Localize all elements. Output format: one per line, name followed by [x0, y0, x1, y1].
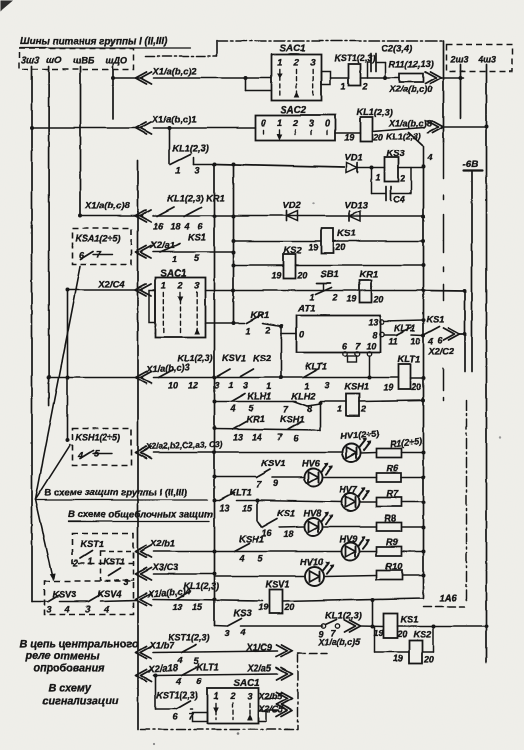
pin 10: [410, 336, 420, 346]
resistor R9: [376, 547, 401, 556]
svg-text:KLT1: KLT1: [397, 353, 420, 364]
svg-text:KST1: KST1: [80, 539, 104, 549]
wire row77 branch down: [245, 78, 271, 91]
svg-text:4: 4: [229, 403, 235, 413]
connector column boundary X1: [137, 160, 139, 729]
svg-text:3: 3: [194, 165, 199, 175]
note line2: [24, 650, 100, 662]
connector X2/a(b,c)0 arrows: [425, 72, 441, 84]
label 1А6: [439, 592, 457, 603]
wire to HV8: [279, 526, 303, 529]
pin 1: [245, 326, 250, 336]
label X2/a5: [246, 663, 272, 673]
svg-text:4: 4: [77, 450, 83, 460]
diode VD2: [286, 211, 297, 221]
label KLT1 row675: [196, 662, 218, 672]
wire row601 from bus: [32, 600, 47, 602]
note line3: [33, 662, 105, 674]
capacitor C4 right wire: [391, 167, 412, 193]
wire R1 to rail: [401, 451, 423, 453]
svg-text:16: 16: [153, 221, 164, 231]
wire row77 right: [441, 77, 463, 79]
svg-text:4: 4: [427, 336, 433, 346]
svg-text:R11(12,13): R11(12,13): [388, 59, 433, 69]
label KL1(2,3) row626: [325, 610, 361, 620]
svg-text:X1/a(b,c)2: X1/a(b,c)2: [151, 65, 197, 76]
pins 6 7 10 of AT1: [342, 341, 376, 351]
pins 16 18 4 6: [153, 221, 203, 231]
wire row252: [153, 251, 233, 253]
wire SAC1b out lower: [205, 321, 235, 325]
label KST1(2,3) bottom: [156, 690, 198, 700]
label X3/C3: [151, 561, 179, 572]
label X1/a(b,c)8 right: [388, 118, 432, 128]
svg-text:3: 3: [46, 604, 51, 614]
wire to KST1 contact: [155, 708, 176, 710]
wire row128 to SAC2: [153, 126, 255, 130]
dash-dot boundary top segment: [217, 40, 444, 42]
connector X2/C2 arrows: [443, 328, 459, 340]
bus label 2ш3: [449, 54, 468, 64]
wire row452: [153, 451, 342, 453]
connector X1/a(b,c)1 chevron: [135, 122, 151, 134]
svg-text:X2/a1: X2/a1: [149, 239, 175, 250]
svg-text:X2/a18: X2/a18: [147, 661, 179, 674]
pin 19 of KS2b: [393, 653, 403, 663]
label R8: [384, 513, 397, 523]
pointer diagonal from KSA1: [35, 266, 80, 499]
svg-text:В цепь центрального: В цепь центрального: [19, 638, 139, 650]
connector X1/b7 chevron: [135, 646, 151, 658]
label -6В: [462, 159, 478, 170]
relay KS2 coil bottom: [409, 640, 422, 663]
wire arrows to KS1: [360, 625, 383, 628]
pins 16 18: [261, 528, 293, 539]
contact KS1 row252: [160, 243, 180, 252]
svg-text:19: 19: [258, 602, 268, 612]
svg-text:1: 1: [213, 691, 218, 701]
wire row675: [153, 673, 277, 677]
pin 2 of KS3: [399, 173, 405, 183]
pin 20 of KLT1: [410, 382, 421, 392]
label X2/b1: [149, 537, 175, 548]
svg-text:1: 1: [161, 280, 166, 290]
connector X1/a(b,c)5 arrows: [344, 620, 360, 632]
contact KSV1 row377: [217, 369, 230, 377]
led HV8: [304, 512, 333, 536]
note: in common block protections: [68, 509, 213, 521]
svg-text:2: 2: [176, 280, 182, 290]
wire row404: [307, 401, 322, 406]
svg-text:1: 1: [304, 381, 309, 391]
pin 19 of KLT1: [383, 382, 393, 392]
pins 6 7: [172, 711, 194, 721]
capacitor C4 plates: [386, 186, 391, 200]
bus 2ш3 4ш3 dashed box: [446, 44, 512, 71]
label KS2: [253, 353, 272, 363]
dash-dot boundary right: [442, 142, 444, 400]
contact KS3 row626: [227, 618, 241, 626]
contact KL1 row599: [176, 591, 190, 599]
pins 1 5: [172, 253, 200, 264]
relay KSH1 coil: [346, 393, 359, 416]
svg-text:KSV3: KSV3: [52, 589, 76, 599]
connector X1/a(b,c)8 chevron: [135, 210, 151, 222]
svg-text:C2(3,4): C2(3,4): [381, 42, 412, 53]
svg-text:6: 6: [196, 676, 202, 686]
rail A vertical: [212, 162, 216, 625]
svg-text:3: 3: [243, 380, 248, 390]
svg-text:18: 18: [170, 221, 180, 231]
svg-text:19: 19: [308, 242, 318, 252]
svg-text:KSA1(2÷5): KSA1(2÷5): [75, 233, 120, 243]
switch SAC1b box: [155, 277, 205, 337]
boundary right solid segment: [442, 41, 444, 143]
wire AT1 input: [281, 326, 296, 333]
pin 20 of KS2: [296, 270, 307, 280]
svg-text:HV10: HV10: [300, 557, 324, 567]
label X2/a1: [149, 239, 175, 250]
svg-text:12: 12: [188, 380, 198, 390]
branch 257 down: [256, 500, 258, 521]
svg-text:1: 1: [266, 381, 271, 391]
connector X1/a(b,c)8 arrows right: [427, 121, 443, 133]
label KSH1 contact row551: [239, 534, 264, 544]
wire KST1 to R11: [360, 76, 399, 80]
svg-text:KL1(2,3): KL1(2,3): [325, 610, 361, 620]
wire row626: [240, 625, 322, 627]
svg-text:2: 2: [360, 404, 366, 414]
connector X1/a(b,c)3 chevron: [135, 371, 151, 383]
KS2 parallel wires: [374, 626, 433, 652]
svg-text:SAC1: SAC1: [279, 43, 305, 54]
svg-text:KST1(2,3): KST1(2,3): [168, 632, 210, 642]
label R1(2÷5): [389, 436, 422, 449]
svg-text:2: 2: [361, 81, 367, 91]
label X2/C4: [97, 278, 125, 289]
svg-text:KSH1: KSH1: [344, 381, 369, 391]
contact KSV1 row476: [256, 469, 270, 477]
contact KL1 row626: [321, 619, 339, 628]
svg-text:3: 3: [324, 380, 329, 390]
wire row290 to -6V rail: [423, 289, 467, 293]
label X1/b7: [148, 639, 175, 650]
svg-text:1: 1: [175, 165, 180, 175]
switch SAC2 label: [280, 105, 307, 116]
svg-text:VD1: VD1: [344, 151, 362, 162]
svg-text:KS2: KS2: [253, 353, 272, 363]
pin 20 of KL1: [372, 132, 383, 142]
connector X3/C3 chevron: [135, 568, 151, 580]
pin 8 of AT1: [372, 330, 384, 340]
label R9: [386, 537, 399, 547]
svg-text:2: 2: [292, 57, 298, 67]
led HV9: [341, 536, 370, 560]
connector X2/b1 chevron: [135, 545, 151, 557]
wire KS3 to rail: [398, 166, 423, 168]
resistor R6: [376, 473, 401, 482]
pins 3 4: [224, 627, 245, 638]
label KS1: [337, 227, 355, 238]
svg-text:3: 3: [214, 380, 219, 390]
contact KS2 row377: [240, 369, 253, 377]
svg-text:KS3: KS3: [233, 607, 252, 618]
pins 7 9: [256, 478, 278, 489]
note: to signalling circuit line1: [48, 682, 91, 694]
relay KR1 coil: [359, 280, 371, 302]
wire row377 from bus: [49, 376, 142, 378]
svg-text:20: 20: [372, 294, 383, 304]
SAC1c input tab: [192, 712, 207, 721]
label KSH1(2÷5): [75, 432, 120, 442]
relay KL1(2,3) label: [356, 107, 392, 117]
svg-text:Шины питания группы I (II,III): Шины питания группы I (II,III): [20, 36, 167, 47]
contact KLH2: [293, 401, 307, 406]
wire R9 to rail: [401, 550, 423, 552]
vertical AT1-in to row377: [279, 333, 283, 379]
wire row652: [153, 651, 277, 653]
bus 3ш3 vertical wire: [30, 66, 34, 601]
svg-text:реле отмены: реле отмены: [24, 650, 100, 662]
connector X2/a18 chevron: [135, 669, 151, 681]
led HV7: [341, 487, 370, 511]
svg-text:KR1: KR1: [359, 268, 378, 279]
relay group KSA1 dashed box: [72, 228, 131, 264]
label KL1(2,3): [177, 353, 213, 363]
pin 20 of KS1b: [396, 629, 407, 639]
wire row216 mid: [153, 215, 423, 217]
wire row323: [233, 323, 283, 328]
label KL1(2,3) row599: [183, 581, 219, 591]
svg-text:8: 8: [372, 330, 377, 340]
pins 4 6: [175, 676, 202, 686]
switch SAC1 label: [279, 43, 305, 54]
wire AT1 pin10 down: [367, 356, 371, 380]
pin 2 of SB1: [331, 292, 337, 302]
pin 1 of KST1: [340, 81, 345, 91]
svg-text:4: 4: [175, 676, 181, 686]
wire row290: [233, 289, 423, 291]
label KL1(2,3) contact upper: [172, 143, 208, 153]
capacitor C2 branch right: [376, 62, 386, 78]
svg-text:шДО: шДО: [105, 55, 127, 65]
svg-text:18: 18: [283, 529, 293, 539]
led HV6: [304, 462, 333, 486]
wire AT1 pin8: [384, 334, 396, 336]
connector X2/C5 arrows: [276, 704, 292, 716]
wire to rail: [411, 334, 423, 337]
pin 1 of KSH1: [337, 404, 342, 414]
svg-text:X3/C3: X3/C3: [151, 561, 179, 572]
contact KL1 row215: [157, 207, 174, 216]
bus шВБ vertical wire: [79, 66, 81, 216]
svg-text:KSH1: KSH1: [239, 534, 264, 544]
contact KR1 row323: [246, 314, 262, 323]
wire R6 to rail: [401, 476, 423, 478]
note: to central release relay circuit: [19, 638, 139, 650]
svg-text:19: 19: [383, 382, 393, 392]
wire KSH1 to rail: [359, 400, 423, 401]
svg-text:10: 10: [168, 380, 178, 390]
svg-text:KL1(2,3) KR1: KL1(2,3) KR1: [167, 193, 224, 203]
bus 4ш3 vertical wire: [484, 64, 488, 662]
wire SAC1 to KST1: [330, 77, 348, 79]
label X1/a(b,c)4: [146, 586, 190, 599]
svg-text:опробования: опробования: [33, 662, 105, 674]
svg-text:1: 1: [172, 254, 177, 264]
contact KLT1 row675: [181, 667, 196, 675]
svg-text:20: 20: [296, 270, 307, 280]
svg-text:В схеме общеблочных защит: В схеме общеблочных защит: [68, 509, 213, 520]
wire row289: [67, 289, 142, 291]
label KS1 bottom: [400, 613, 418, 624]
svg-text:1: 1: [340, 81, 345, 91]
label VD2: [282, 199, 301, 210]
bus шДО vertical wire: [111, 66, 115, 119]
svg-text:3: 3: [310, 57, 315, 67]
pins 4 5: [176, 655, 199, 666]
svg-text:20: 20: [372, 132, 383, 142]
capacitor C2 plates: [371, 53, 376, 71]
contact KS1 row335: [424, 326, 439, 334]
pin 2 of KSH1: [360, 404, 366, 414]
relay group KSV3 KSV4 dashed box: [44, 581, 133, 614]
svg-text:15: 15: [242, 503, 253, 513]
title: power supply buses group I(II,III): [20, 36, 190, 48]
led HV1: [342, 438, 371, 462]
pins 9 7: [318, 628, 336, 639]
label X2/b5: [257, 691, 283, 701]
svg-text:13: 13: [233, 432, 243, 442]
contact KST1 row652: [181, 644, 196, 652]
wire X2/b1: [153, 550, 214, 552]
svg-text:1: 1: [276, 118, 281, 128]
pin 20 of KSV1: [283, 602, 294, 612]
wire row265: [233, 264, 283, 266]
svg-text:В схеме защит группы I (II,I: В схеме защит группы I (II,III): [44, 487, 187, 498]
svg-text:10: 10: [410, 336, 420, 346]
pins 13 15: [172, 602, 203, 612]
connector X1/C9 arrows: [276, 645, 292, 657]
label X2/a2,b2,C2,a3,C3: [145, 438, 223, 451]
relay KS2 coil: [283, 254, 295, 278]
svg-text:X2/C4: X2/C4: [97, 278, 125, 289]
label KSH1 contact: [280, 414, 305, 424]
resistor R11: [399, 73, 423, 82]
label KLH2: [291, 391, 316, 401]
label KR1 coil: [359, 268, 378, 279]
svg-text:20: 20: [410, 382, 421, 392]
label X1/C9: [245, 642, 272, 652]
svg-text:KS1: KS1: [337, 227, 355, 238]
relay KS1 coil bottom: [383, 613, 397, 638]
pin 1 of SB1: [309, 292, 314, 302]
svg-text:KL1(2,3): KL1(2,3): [172, 143, 208, 153]
pin 2: [264, 325, 270, 335]
svg-text:3: 3: [224, 628, 229, 638]
svg-text:X1/a(b,c)5: X1/a(b,c)5: [317, 637, 361, 647]
svg-text:X1/a(b,c)8: X1/a(b,c)8: [388, 118, 432, 128]
svg-text:15: 15: [192, 602, 203, 612]
pins 4 5: [229, 403, 254, 413]
diode VD1: [346, 162, 357, 172]
dash-dot boundary bottom right vertical: [297, 653, 299, 729]
svg-text:9: 9: [273, 478, 278, 488]
label R10: [385, 561, 403, 571]
relay KST1 dashed box 2: [100, 551, 133, 580]
svg-text:1: 1: [228, 380, 233, 390]
pin 20 of KS1: [334, 242, 345, 252]
pin 13 of AT1: [368, 317, 384, 327]
bus terminal dashed box: [19, 48, 133, 69]
relay KLT1 coil: [398, 364, 410, 389]
svg-text:1: 1: [87, 556, 92, 566]
svg-text:C4: C4: [393, 194, 405, 204]
contact KST1 bottom: [176, 701, 190, 709]
vertical link x67: [65, 288, 69, 443]
svg-text:шВБ: шВБ: [73, 55, 95, 65]
bus шО vertical wire: [47, 66, 51, 405]
label SB1: [320, 268, 338, 279]
label KLT1 contact row335: [394, 323, 415, 333]
contact KL1 row377: [158, 369, 173, 377]
svg-text:шО: шО: [46, 55, 61, 65]
relay contact KST1(2,3) label: [334, 53, 375, 63]
SAC1 output tab: [321, 71, 330, 84]
contact KSV4: [88, 595, 100, 602]
wire VD1 to KS3: [358, 165, 384, 169]
label VD1: [344, 151, 362, 162]
wire row599: [153, 599, 262, 601]
connector X2/a5 arrows: [276, 668, 292, 680]
label KSV1: [222, 353, 246, 363]
svg-text:10: 10: [366, 341, 376, 351]
capacitor C4 branch: [371, 167, 385, 193]
contact KR1 row215: [184, 207, 201, 216]
relay KS1 coil: [321, 228, 333, 253]
svg-text:3: 3: [85, 604, 90, 614]
label X1/a(b,c)3: [145, 362, 190, 374]
svg-text:0: 0: [299, 329, 304, 339]
wire KSV4 out: [100, 600, 137, 601]
svg-text:VD13: VD13: [344, 199, 368, 210]
pins 10 12: [168, 380, 198, 390]
pin 0 of AT1: [299, 329, 304, 339]
svg-text:X2/a5: X2/a5: [246, 663, 272, 673]
wire row576: [214, 575, 304, 577]
label KST1 box1: [80, 539, 104, 549]
label KST1(2,3) row652: [168, 632, 210, 642]
svg-text:19: 19: [346, 293, 356, 303]
label X1/a(b,c)1: [151, 113, 196, 124]
switch SAC1 bottom box: [207, 688, 258, 723]
label KL1(2,3) right contact: [386, 131, 420, 141]
scan speck: [153, 202, 501, 745]
label VD13: [344, 199, 368, 210]
svg-text:6: 6: [172, 711, 178, 721]
vertical link 372: [370, 600, 374, 629]
pins 3 4 of KSV4: [85, 604, 109, 614]
svg-text:1: 1: [337, 404, 342, 414]
svg-text:3: 3: [247, 691, 252, 701]
vertical link 320: [319, 403, 321, 430]
svg-text:3: 3: [194, 280, 199, 290]
pins 3 4 of KSV3: [46, 604, 69, 614]
svg-text:KSV1: KSV1: [265, 578, 290, 589]
wire KSV1 to rail corner: [282, 598, 423, 602]
label R7: [386, 488, 399, 498]
wire SAC1b out upper: [205, 289, 233, 291]
